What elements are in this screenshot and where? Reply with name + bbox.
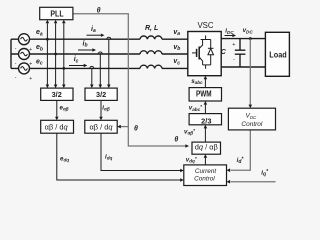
svg-text:dq / αβ: dq / αβ — [195, 143, 218, 152]
svg-text:2/3: 2/3 — [201, 117, 211, 126]
svg-text:3/2: 3/2 — [52, 90, 62, 99]
svg-text:Load: Load — [269, 50, 287, 59]
svg-text:θ: θ — [134, 125, 138, 132]
svg-text:VSC: VSC — [197, 21, 213, 30]
svg-text:θ: θ — [174, 137, 178, 144]
svg-text:αβ / dq: αβ / dq — [90, 122, 114, 131]
svg-text:+: + — [29, 47, 32, 53]
svg-text:-: - — [233, 57, 235, 63]
svg-text:Control: Control — [194, 175, 215, 182]
svg-text:+: + — [29, 76, 32, 82]
svg-text:Current: Current — [195, 168, 217, 175]
svg-text:PLL: PLL — [50, 10, 63, 19]
svg-text:3/2: 3/2 — [96, 90, 106, 99]
svg-text:R, L: R, L — [145, 25, 158, 32]
svg-text:θ: θ — [97, 7, 101, 14]
svg-text:+: + — [29, 62, 32, 68]
svg-text:Control: Control — [241, 121, 263, 128]
svg-text:αβ / dq: αβ / dq — [45, 122, 69, 131]
svg-text:PWM: PWM — [196, 90, 212, 99]
svg-text:+: + — [232, 42, 235, 48]
